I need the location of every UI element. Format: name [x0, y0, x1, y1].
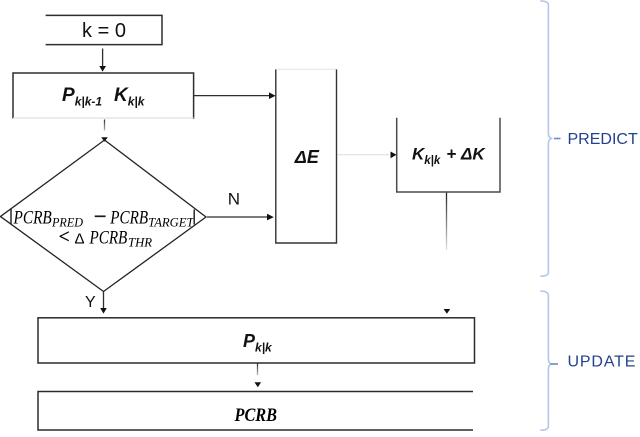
- svg-text:Y: Y: [85, 294, 96, 311]
- svg-text:PCRB: PCRB: [13, 207, 52, 228]
- wire diamond to update block (Y branch): [103, 292, 105, 309]
- svg-text:N: N: [228, 190, 240, 209]
- wire k=0 to prediction block: [102, 49, 104, 67]
- svg-text:Δ: Δ: [75, 231, 85, 248]
- box prediction Pk|k-1 Kk|k (faint bottom edge): [13, 73, 195, 119]
- wire diamond to Delta-E (N branch): [207, 216, 268, 218]
- fading wire gain box downward: [446, 193, 448, 250]
- svg-text:ΔE: ΔE: [294, 147, 320, 167]
- svg-text:<: <: [59, 226, 70, 248]
- decision diamond PCRB compare: [1, 140, 207, 292]
- svg-text:PREDICT: PREDICT: [568, 131, 638, 148]
- faint wire Delta-E to gain box: [338, 154, 390, 156]
- dashed wire prediction block down to decision diamond: [104, 120, 106, 131]
- arrowhead into PCRB block: [255, 382, 262, 387]
- svg-text:PCRB: PCRB: [110, 207, 149, 228]
- brace UPDATE: [540, 291, 636, 430]
- arrowhead into diamond: [101, 137, 108, 142]
- arrowhead into gain box: [391, 152, 397, 159]
- svg-text:TARGET: TARGET: [148, 214, 194, 229]
- box Delta-E (faint top edge): [276, 69, 337, 243]
- brace PREDICT: [540, 1, 638, 276]
- arrowhead into prediction block: [99, 66, 106, 72]
- svg-text:k = 0: k = 0: [82, 20, 126, 42]
- svg-text:UPDATE: UPDATE: [568, 353, 637, 370]
- svg-text:PCRB: PCRB: [234, 405, 277, 426]
- arrowhead into Delta-E: [267, 214, 274, 221]
- box PCRB output (open right side): [38, 392, 473, 431]
- svg-text:THR: THR: [128, 235, 152, 250]
- arrowhead into update block from gain path: [444, 309, 451, 314]
- box gain Kk|k + Delta-K (open top): [397, 118, 500, 192]
- fading wire update block to PCRB block: [257, 363, 259, 375]
- box k=0 (init block, open left side): [46, 15, 162, 44]
- condition text line 1: |PCRB_PRED - PCRB_TARGET|: [10, 209, 12, 224]
- arrowhead into update block: [100, 308, 107, 314]
- arrowhead into Delta-E: [269, 92, 276, 99]
- svg-text:PCRB: PCRB: [89, 228, 128, 249]
- wire prediction block to Delta-E box: [194, 95, 270, 97]
- box update Pk|k: [38, 318, 475, 363]
